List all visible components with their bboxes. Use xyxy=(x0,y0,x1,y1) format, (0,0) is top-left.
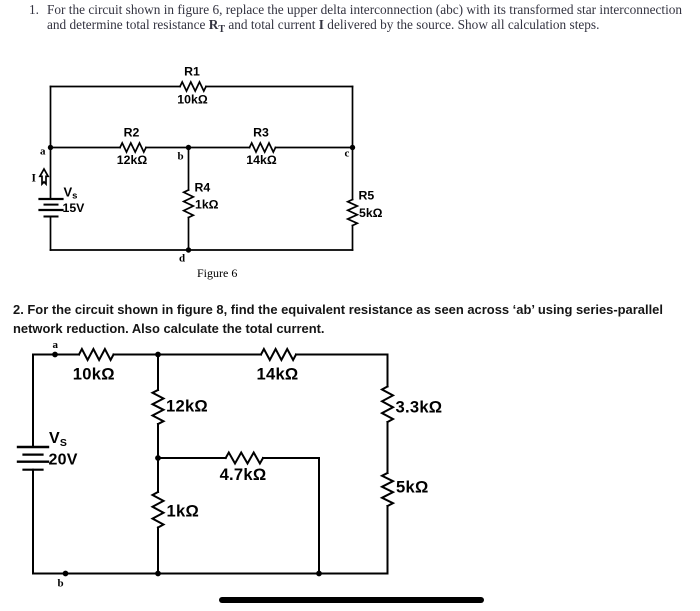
svg-text:R2: R2 xyxy=(124,126,140,140)
svg-text:Figure 6: Figure 6 xyxy=(197,266,237,280)
svg-text:Vs: Vs xyxy=(64,185,78,202)
svg-text:10kΩ: 10kΩ xyxy=(73,365,115,384)
svg-text:3.3kΩ: 3.3kΩ xyxy=(396,398,443,417)
svg-text:12kΩ: 12kΩ xyxy=(166,397,208,416)
svg-text:b: b xyxy=(178,151,184,163)
svg-text:d: d xyxy=(179,253,185,265)
svg-text:b: b xyxy=(58,578,64,590)
svg-text:R4: R4 xyxy=(195,181,211,195)
svg-text:1kΩ: 1kΩ xyxy=(167,502,200,521)
svg-text:10kΩ: 10kΩ xyxy=(177,93,208,107)
svg-text:20V: 20V xyxy=(49,452,78,469)
svg-text:a: a xyxy=(40,146,46,158)
svg-text:VS: VS xyxy=(49,430,67,449)
svg-text:4.7kΩ: 4.7kΩ xyxy=(220,465,267,484)
svg-text:R3: R3 xyxy=(253,126,269,140)
svg-text:R1: R1 xyxy=(184,65,200,79)
svg-text:c: c xyxy=(345,148,350,160)
svg-text:5kΩ: 5kΩ xyxy=(396,478,429,497)
svg-text:14kΩ: 14kΩ xyxy=(246,153,277,167)
svg-text:I: I xyxy=(32,173,37,185)
svg-text:12kΩ: 12kΩ xyxy=(117,153,148,167)
svg-text:14kΩ: 14kΩ xyxy=(257,365,299,384)
svg-text:1kΩ: 1kΩ xyxy=(195,198,219,212)
svg-text:5kΩ: 5kΩ xyxy=(359,206,383,220)
svg-text:15V: 15V xyxy=(63,201,86,215)
svg-text:R5: R5 xyxy=(359,189,375,203)
svg-text:a: a xyxy=(53,339,59,351)
